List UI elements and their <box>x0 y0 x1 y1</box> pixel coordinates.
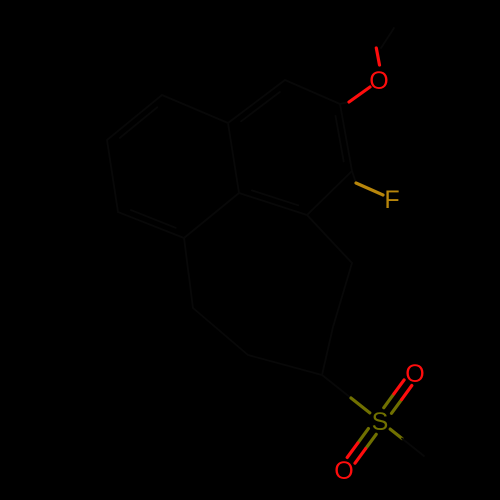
wire ring1 edge 0 <box>340 104 352 171</box>
bond C-F dark half <box>352 171 356 183</box>
double bond S=O lower red half b <box>355 449 366 464</box>
bond O-CH3 red half <box>376 48 379 65</box>
bond S-CH3 olive half <box>390 429 402 438</box>
svg-text:O: O <box>405 360 424 388</box>
wire ring1 edge 5 <box>285 80 340 104</box>
double bond S=O upper olive half a <box>392 399 402 413</box>
svg-text:O: O <box>334 457 353 485</box>
wire 8ring P-W4 <box>184 238 193 308</box>
svg-text:O: O <box>369 67 388 95</box>
wire ring1 double V1V2 <box>336 116 344 162</box>
bond O-C(ring) red part <box>349 87 370 102</box>
wire ring1 edge 2 <box>239 193 307 215</box>
bond O-C(ring) dark half <box>340 102 349 104</box>
wire ring1 double V3V4 <box>252 190 298 205</box>
wire ring1 edge 1 <box>307 171 352 215</box>
double bond S=O lower olive half a <box>358 429 369 444</box>
bond C-S olive half <box>351 398 370 413</box>
wire ring2 edge 4 <box>184 193 239 238</box>
wire ring2 double W1W2 <box>120 107 157 138</box>
wire 8ring C-Q <box>248 355 322 375</box>
wire ring1 edge 4 <box>228 80 285 123</box>
bond C-S dark half <box>322 375 351 398</box>
wire ring2 double W3W4 <box>131 210 176 228</box>
wire 8ring V3-A <box>307 215 352 263</box>
wire ring2 edge 2 <box>107 140 118 212</box>
wire ring1 double V5V6 <box>241 92 280 121</box>
svg-text:F: F <box>384 186 399 214</box>
bond O-CH3 dark half <box>381 28 394 48</box>
wire 8ring A-B <box>333 263 352 327</box>
svg-text:S: S <box>372 408 389 436</box>
wire ring1 edge 3 <box>228 123 239 193</box>
wire 8ring B-C <box>322 327 333 375</box>
double bond S=O upper red half a <box>402 386 412 400</box>
double bond S=O lower red half a <box>347 443 358 457</box>
double bond S=O upper olive half b <box>384 394 394 408</box>
double bond S=O lower olive half b <box>366 434 377 448</box>
wire ring2 edge 1 <box>107 95 162 140</box>
wire ring2 edge 3 <box>118 212 184 238</box>
bond C-F gold part <box>356 183 383 195</box>
wire 8ring Q-P <box>193 308 248 355</box>
wire ring2 edge 0 <box>162 95 228 123</box>
bond S-CH3 dark half <box>402 439 424 457</box>
double bond S=O upper red half b <box>394 380 404 394</box>
